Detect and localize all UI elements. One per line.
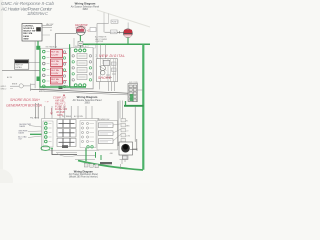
legend box left [14, 60, 28, 70]
wire to fan1 [55, 34, 76, 49]
svg-text:GENERATOR BOX 50A: GENERATOR BOX 50A [6, 104, 43, 108]
left pin column [43, 50, 46, 87]
relay boxes middle [57, 120, 76, 147]
red ticks right of relay stack [63, 54, 67, 81]
fuse label box 2 [111, 30, 118, 34]
svg-text:GMC Air-Response II-Cab: GMC Air-Response II-Cab [1, 1, 54, 7]
fan F1 [75, 24, 91, 35]
svg-text:SW PANEL B: SW PANEL B [75, 45, 87, 48]
svg-text:COM: COM [126, 136, 131, 138]
svg-text:DASH: DASH [23, 35, 29, 38]
green corner right [125, 101, 127, 106]
dark mark under relay3 [62, 145, 68, 148]
verticals bus to control box [99, 44, 101, 59]
svg-text:NEW DIGITAL: NEW DIGITAL [99, 54, 125, 58]
dark segment [100, 162, 112, 164]
title block top [71, 2, 100, 11]
green stub below box [37, 41, 39, 49]
hanging boxes [84, 163, 98, 168]
green bottom row pins [74, 84, 86, 87]
svg-text:SHORE BOX 30A: SHORE BOX 30A [10, 98, 39, 102]
connector block right [128, 82, 143, 102]
green bottom bus sloped [78, 161, 143, 171]
left label rows [18, 124, 31, 141]
small component near 120 [123, 156, 128, 159]
left pin column of right panel [72, 55, 74, 81]
green oval annotation [41, 146, 50, 150]
svg-text:11/9/15 Rev C: 11/9/15 Rev C [27, 11, 49, 16]
breaker circle [19, 84, 23, 88]
tick line left of green vertical [130, 148, 137, 150]
right connector [80, 121, 96, 148]
long left wire [2, 69, 40, 71]
svg-text:FUSE 1: FUSE 1 [112, 22, 118, 24]
motor [121, 144, 130, 153]
svg-text:FUSE 2: FUSE 2 [111, 32, 117, 34]
green vertical from panel [85, 148, 87, 161]
svg-text:(Model 260 Front to Interior): (Model 260 Front to Interior) [69, 176, 98, 179]
fan F2 [124, 23, 133, 38]
green left border [39, 48, 41, 87]
svg-text:1983: 1983 [82, 8, 88, 11]
green right main vertical [142, 44, 144, 170]
main top panel [40, 48, 93, 89]
pin strip [121, 119, 126, 142]
svg-text:AC IN: AC IN [7, 76, 13, 79]
svg-text:12-24V: 12-24V [51, 64, 59, 66]
svg-text:RLY 2A: RLY 2A [51, 60, 59, 63]
svg-text:F1: F1 [50, 30, 52, 32]
green bus2 panel bottom [40, 86, 87, 88]
svg-text:RLY 4A: RLY 4A [51, 78, 59, 81]
svg-text:REV. 3PA: REV. 3PA [23, 32, 33, 35]
feeders from bus to bottom panel [44, 106, 46, 119]
svg-text:VAC SW: VAC SW [46, 23, 54, 26]
corner shadow bottom-left [0, 169, 13, 193]
verticals below control box [108, 82, 110, 91]
green blob below box [36, 46, 40, 50]
green top bus [83, 43, 150, 45]
green feed into left connector [30, 133, 46, 135]
svg-text:DETAIL: DETAIL [15, 66, 21, 69]
green mid vertical [69, 44, 71, 87]
small dark box on green bus2 [59, 86, 63, 89]
small label box under bus [88, 45, 96, 48]
green stem fan2 [127, 38, 129, 45]
top small wires center [97, 24, 109, 59]
right relay block [71, 48, 93, 89]
gray vertical to motor [134, 107, 136, 142]
title block bottom section [73, 95, 102, 104]
wire right of motor [133, 139, 137, 149]
svg-text:RLY BANK: RLY BANK [62, 115, 72, 118]
svg-text:SW PANEL A: SW PANEL A [46, 46, 58, 49]
upper-left control box [22, 24, 42, 42]
svg-text:→+: →+ [44, 100, 49, 104]
green top row pins [74, 49, 86, 52]
bottom main panel [42, 119, 99, 151]
page background [0, 0, 150, 183]
green stem fan1 [79, 35, 81, 41]
svg-text:50A IN: 50A IN [18, 132, 24, 135]
vertical feeder pair left [34, 103, 36, 119]
svg-text:RLY 3A: RLY 3A [51, 69, 59, 72]
gray vertical near fan1 [73, 38, 75, 48]
red relay stack [51, 50, 63, 85]
svg-text:RLY 1A: RLY 1A [51, 51, 59, 54]
green stem to panel [79, 45, 81, 48]
right pin column of right panel [89, 55, 91, 81]
motor connector below [122, 155, 128, 159]
green square on panel left [37, 77, 42, 82]
red cluster notes [53, 96, 67, 117]
fuse label box 1 [111, 20, 118, 23]
motor box [119, 142, 133, 155]
svg-text:Wiring Diagram: Wiring Diagram [74, 170, 94, 174]
wire fuse2 to fan2 [105, 31, 111, 33]
svg-text:CENTER: CENTER [95, 41, 104, 43]
text cluster under labels [95, 36, 108, 44]
svg-text:50A IN: 50A IN [19, 125, 25, 128]
svg-text:1983: 1983 [84, 102, 90, 105]
gray vertical wire left [34, 41, 36, 88]
inner right pin column of left panel [63, 51, 65, 88]
svg-text:+: + [38, 98, 40, 102]
left connector [43, 121, 53, 147]
svg-text:PNL FEED: PNL FEED [30, 117, 40, 119]
legend leader wire [29, 62, 40, 64]
svg-text:VIEW: VIEW [23, 38, 28, 40]
wires below bottom panel [52, 148, 77, 155]
svg-text:BRKR: BRKR [12, 83, 18, 85]
wires from upper-left box [42, 25, 52, 27]
svg-text:GRD 2: GRD 2 [1, 88, 7, 90]
middle tick column [47, 52, 50, 81]
svg-text:12-24V: 12-24V [51, 82, 59, 84]
center boxes of right panel [77, 54, 87, 80]
svg-text:12-24V: 12-24V [51, 73, 59, 75]
junction box under fan1 [78, 41, 83, 45]
label box A [90, 28, 96, 32]
svg-text:SHORE: SHORE [98, 76, 112, 80]
bottom caption [69, 170, 98, 179]
crease diagonal top right [97, 10, 150, 27]
red arrow mark [51, 108, 53, 115]
dark bus double line [31, 89, 129, 93]
right control box [97, 59, 118, 82]
svg-text:AC CONN: AC CONN [74, 115, 83, 118]
svg-text:12-24V: 12-24V [51, 55, 59, 57]
